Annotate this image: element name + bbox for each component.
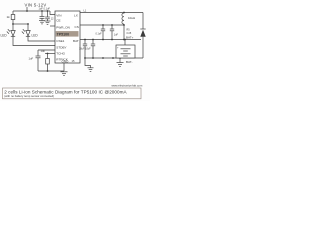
svg-text:0.05: 0.05 [127, 32, 132, 35]
capacitor C6 [92, 40, 94, 45]
ground C1 [39, 20, 45, 22]
svg-text:10k: 10k [41, 49, 46, 53]
svg-text:1uF 0.1uF: 1uF 0.1uF [39, 8, 51, 11]
svg-text:LED: LED [1, 34, 8, 38]
capacitor C2 input [47, 10, 49, 12]
wire LED2 to CSEL [28, 36, 55, 41]
svg-text:10uF 10uF: 10uF 10uF [79, 47, 91, 50]
wire BAT rail [80, 39, 141, 41]
wire VIN rail [13, 10, 50, 12]
svg-text:1uF: 1uF [114, 34, 119, 37]
wire VIN stub [26, 7, 28, 11]
svg-text:10uH: 10uH [128, 16, 135, 20]
svg-text:LX: LX [74, 14, 78, 18]
label input caps [39, 8, 51, 11]
svg-text:BAT+: BAT+ [126, 36, 134, 40]
resistor Rs sense [123, 25, 125, 40]
svg-text:VIN: VIN [56, 14, 61, 18]
svg-text:1k: 1k [7, 15, 11, 19]
wire IC gnd stub [63, 63, 65, 71]
wire gnd branch [85, 58, 91, 68]
node junction LED rail [12, 23, 14, 25]
wire LX rail [80, 12, 143, 14]
resistor R2 trickle [47, 54, 49, 59]
svg-text:BAT: BAT [73, 39, 79, 43]
capacitor C7 timing [37, 50, 39, 56]
label pin 12 [51, 18, 54, 21]
wire VIN to IC pin [50, 11, 55, 15]
svg-text:(with no battery temp sensor c: (with no battery temp sensor connected) [4, 94, 54, 98]
wire RTRICK [45, 53, 55, 55]
LED D1 [12, 24, 14, 31]
capacitor C1 input [41, 10, 43, 12]
wire ground rail [85, 57, 143, 59]
ground symbol IC [61, 71, 68, 73]
resistor R1 [12, 11, 14, 15]
wire LED anode rail [13, 23, 28, 25]
wire LED1 to STDBY [13, 36, 55, 45]
wire CS rail [80, 24, 124, 26]
net label BAT+ [126, 36, 134, 40]
svg-text:GND: GND [62, 59, 70, 63]
svg-text:CSE1: CSE1 [56, 39, 64, 43]
svg-text:BAT-: BAT- [126, 60, 132, 64]
LED D2 [27, 24, 29, 31]
svg-text:CE: CE [56, 19, 60, 23]
svg-text:STDBY: STDBY [56, 45, 66, 49]
net label BAT- [126, 60, 132, 64]
svg-text:TP5100: TP5100 [57, 33, 70, 37]
wire TCHG [38, 49, 55, 51]
ground symbol mid [88, 67, 94, 69]
diode D3 freewheel [142, 13, 144, 30]
svg-text:TCHG: TCHG [56, 51, 65, 55]
inductor L1 [122, 13, 124, 24]
capacitor C3 [102, 25, 104, 29]
svg-text:PWR_ON: PWR_ON [56, 26, 70, 30]
capacitor C5 [84, 40, 86, 45]
battery BT1 2 cells [124, 40, 126, 46]
node VIN input label [25, 2, 47, 7]
IC U1 TP5100 box [55, 11, 80, 63]
ground symbol battery [119, 58, 121, 63]
capacitor C4 [111, 25, 113, 29]
ground C2 [45, 20, 51, 22]
svg-text:CS: CS [75, 25, 79, 29]
net label TP5100 highlighted [56, 31, 79, 36]
caption box [3, 88, 142, 99]
wire PWR_ON stub [50, 25, 55, 27]
svg-text:1uF: 1uF [29, 57, 34, 61]
svg-text:0.1uF: 0.1uF [96, 33, 103, 36]
svg-text:www.electronics-lab.com: www.electronics-lab.com [112, 84, 143, 88]
svg-text:LED: LED [32, 34, 39, 38]
node junction VIN [26, 10, 28, 12]
wire bottom left rail [38, 70, 64, 72]
